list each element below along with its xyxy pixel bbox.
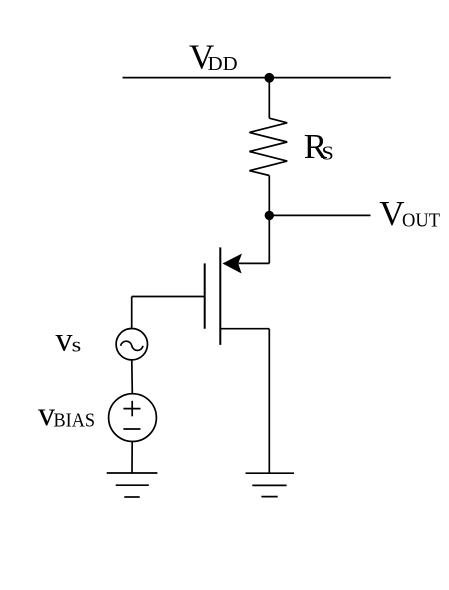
- transistor M1 channel bar: [219, 247, 221, 345]
- wire gate corner down to vs source: [131, 297, 133, 329]
- svg-text:BIAS: BIAS: [54, 409, 96, 431]
- svg-text:v: v: [56, 322, 73, 359]
- node junction dot VOUT: [265, 211, 274, 220]
- gate wire horizontal: [132, 296, 205, 298]
- svg-text:s: s: [72, 335, 82, 357]
- svg-text:S: S: [322, 142, 334, 164]
- vBIAS plus sign: [123, 408, 140, 410]
- AC source vs circle: [116, 329, 147, 360]
- wire vs to vbias: [131, 360, 134, 394]
- ground (left, below vBIAS): [107, 472, 158, 474]
- transistor M1 drain arrowhead (points into channel): [223, 254, 243, 274]
- wire source down to ground: [268, 329, 270, 473]
- resistor RS zigzag: [249, 118, 287, 175]
- wire vbias to ground: [131, 442, 133, 473]
- svg-text:OUT: OUT: [402, 209, 440, 231]
- wire output node to VOUT label: [269, 214, 370, 216]
- vBIAS minus sign: [123, 428, 140, 430]
- svg-text:V: V: [379, 194, 404, 233]
- AC source sine symbol: [121, 341, 143, 350]
- DC source vBIAS circle: [109, 394, 157, 442]
- wire resistor bottom to output node: [268, 176, 270, 216]
- wire VDD node to resistor top: [268, 78, 270, 118]
- transistor M1 source wire horizontal: [220, 328, 269, 330]
- svg-text:DD: DD: [208, 53, 238, 75]
- node junction dot on VDD rail: [264, 73, 274, 83]
- svg-text:v: v: [38, 396, 55, 433]
- ground (right, below source): [246, 472, 295, 474]
- wire drain horizontal into transistor: [239, 262, 270, 264]
- wire output node down to transistor drain: [268, 215, 270, 263]
- transistor M1 gate bar: [204, 263, 206, 328]
- VDD rail wire: [123, 77, 391, 79]
